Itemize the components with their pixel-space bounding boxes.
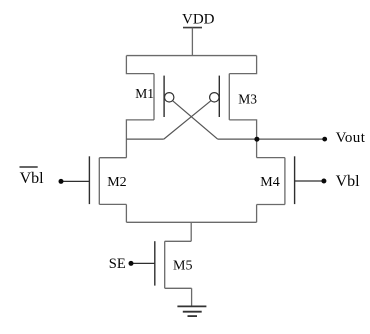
svg-text:Vbl: Vbl	[20, 170, 45, 187]
transistor M3 gate	[218, 76, 220, 117]
terminal dot Vbl input	[321, 179, 326, 184]
wire right drain node to Vout	[218, 138, 325, 140]
transistor M2 drain/source bracket	[99, 158, 126, 223]
wire M2 gate input	[61, 180, 89, 182]
svg-text:Vbl: Vbl	[336, 173, 361, 190]
ground symbol	[177, 306, 206, 316]
power VDD supply bar	[183, 27, 202, 29]
svg-text:M1: M1	[135, 86, 154, 101]
transistor M1 source/drain bracket	[126, 56, 154, 158]
transistor M1 bubble	[165, 93, 174, 102]
svg-text:VDD: VDD	[182, 12, 215, 28]
wire VDD stem	[191, 28, 193, 56]
terminal dot Vbl-bar input	[59, 179, 64, 184]
transistor M1 gate	[163, 76, 165, 117]
transistor M3 source/drain bracket	[229, 56, 256, 158]
wire top rail	[126, 55, 256, 57]
junction node dot	[254, 137, 259, 142]
overline of Vbl-bar	[20, 166, 38, 168]
svg-text:M3: M3	[238, 91, 257, 106]
transistor M4 drain/source bracket	[257, 158, 285, 223]
wire common source rail	[126, 221, 256, 223]
svg-text:M5: M5	[173, 258, 192, 273]
svg-text:SE: SE	[109, 256, 126, 272]
transistor M5 drain/source bracket	[165, 241, 192, 306]
wire cross-couple M1 gate to right node	[173, 101, 218, 139]
wire M5 gate input SE	[131, 262, 155, 264]
wire left drain node	[126, 138, 163, 140]
transistor M2 gate	[88, 156, 90, 204]
wire cross-couple M3 gate to left node	[164, 101, 211, 139]
svg-text:M2: M2	[107, 175, 126, 190]
terminal dot SE	[129, 261, 134, 266]
wire M4 gate input	[295, 180, 324, 182]
transistor M3 bubble	[210, 93, 219, 102]
svg-text:Vout: Vout	[336, 130, 366, 146]
transistor M4 gate	[294, 156, 296, 204]
terminal dot Vout	[322, 137, 327, 142]
wire rail to M5 drain	[190, 222, 192, 241]
transistor M5 gate	[154, 241, 156, 285]
svg-text:M4: M4	[260, 175, 279, 190]
